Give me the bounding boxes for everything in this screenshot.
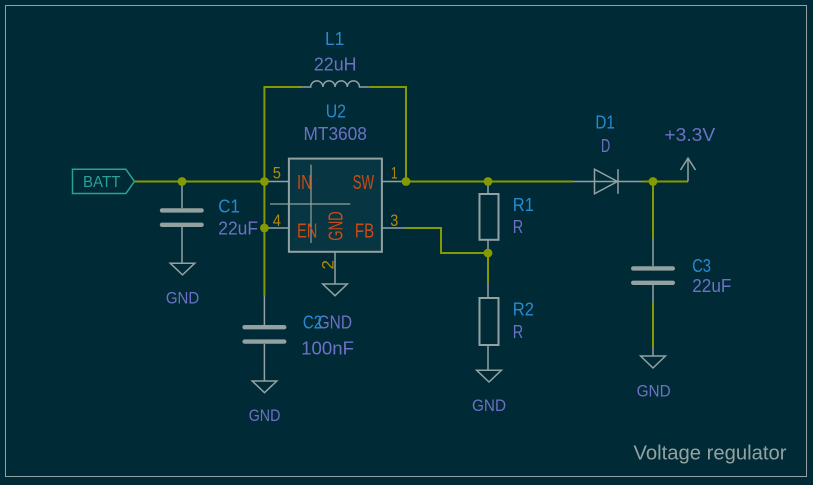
junction IN pin branch <box>260 177 269 186</box>
svg-text:+3.3V: +3.3V <box>664 125 715 145</box>
power symbol +3.3V <box>681 158 696 181</box>
junction BATT/C1 <box>178 177 187 186</box>
svg-text:IN: IN <box>297 172 312 194</box>
svg-text:1: 1 <box>391 164 398 183</box>
svg-text:U2: U2 <box>326 101 346 121</box>
svg-text:22uF: 22uF <box>692 276 731 296</box>
resistor R1 <box>480 182 499 254</box>
svg-text:GND: GND <box>472 396 506 415</box>
svg-text:R1: R1 <box>513 195 534 215</box>
wire SW output to diode <box>406 181 574 183</box>
svg-text:BATT: BATT <box>83 174 121 191</box>
svg-text:GND: GND <box>166 289 199 308</box>
svg-text:D1: D1 <box>595 113 615 133</box>
svg-text:R2: R2 <box>513 300 534 320</box>
ground below pin 2 <box>323 284 348 296</box>
svg-text:D: D <box>601 136 610 156</box>
junction R1/R2 FB node <box>484 249 493 258</box>
svg-text:C2: C2 <box>303 312 322 332</box>
svg-text:SW: SW <box>353 172 375 194</box>
junction R1 top <box>484 177 493 186</box>
svg-text:L1: L1 <box>325 29 344 49</box>
svg-text:MT3608: MT3608 <box>304 124 367 144</box>
svg-text:3: 3 <box>390 211 398 230</box>
ground below C1 <box>170 263 195 275</box>
wire diode cathode to +3.3V <box>642 181 689 183</box>
svg-text:C3: C3 <box>692 256 711 276</box>
capacitor C2 <box>242 296 286 381</box>
svg-text:R: R <box>513 217 523 237</box>
pin 5 IN lead <box>264 181 288 183</box>
junction SW node <box>402 177 411 186</box>
svg-text:GND: GND <box>325 211 347 240</box>
svg-text:GND: GND <box>637 381 671 400</box>
diode D1 <box>574 169 642 194</box>
svg-text:FB: FB <box>355 220 374 242</box>
net label BATT <box>73 169 135 193</box>
svg-text:C1: C1 <box>218 196 240 216</box>
wire BATT to IC pin5 <box>134 181 264 183</box>
wire FB to divider <box>406 228 489 253</box>
junction output node <box>649 177 658 186</box>
svg-text:EN: EN <box>297 220 317 242</box>
svg-text:100nF: 100nF <box>301 339 354 359</box>
pin 1 SW lead <box>382 181 406 183</box>
wire R1 bottom to R2 top <box>487 253 489 284</box>
inductor L1 <box>301 81 370 87</box>
op-amp U2 body <box>270 159 382 252</box>
svg-text:2: 2 <box>319 260 338 270</box>
wire EN/C2 branch vertical <box>263 182 265 297</box>
capacitor C1 <box>160 182 204 264</box>
junction EN tap <box>260 224 269 233</box>
wire L1 to top-right corner and down to SW pin <box>370 87 406 182</box>
svg-text:22uF: 22uF <box>218 218 258 238</box>
svg-text:GND: GND <box>318 312 352 332</box>
wire C3 to GND <box>652 303 654 348</box>
wire vertical up-left to L1 <box>264 87 301 182</box>
capacitor C3 <box>631 239 675 303</box>
svg-text:5: 5 <box>273 164 281 183</box>
pin 4 EN lead <box>264 227 288 229</box>
wire down to C3 <box>652 182 654 239</box>
svg-text:GND: GND <box>249 406 281 425</box>
ground below C3 <box>641 348 666 369</box>
svg-text:4: 4 <box>273 211 281 230</box>
resistor R2 <box>480 284 499 371</box>
svg-text:R: R <box>513 322 523 342</box>
pin 3 FB lead <box>382 227 406 229</box>
ground below C2 <box>252 381 277 393</box>
ground below R2 <box>477 370 502 382</box>
pin 2 lead <box>334 252 336 284</box>
svg-text:22uH: 22uH <box>314 55 357 75</box>
svg-text:Voltage regulator: Voltage regulator <box>634 443 787 465</box>
